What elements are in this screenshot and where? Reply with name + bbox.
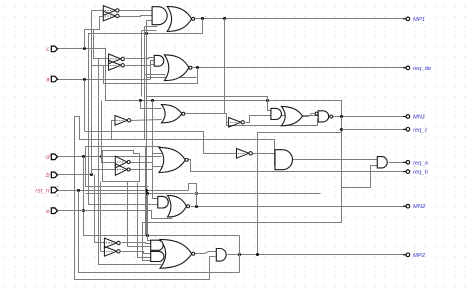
inverter U6 xyxy=(237,149,253,159)
output port req_b xyxy=(403,170,429,176)
wire h77 xyxy=(147,77,197,79)
junction MP1 a xyxy=(201,17,204,20)
rst_n annotations xyxy=(56,185,59,198)
junction d fb boxtop xyxy=(146,234,149,237)
svg-text:·2: ·2 xyxy=(56,194,59,198)
wire MP1 fb to and1 input xyxy=(147,21,153,34)
wire v93 xyxy=(93,30,95,59)
wire d down feedback xyxy=(84,157,240,236)
junction d1 xyxy=(82,155,85,158)
wire and4 bottom input xyxy=(342,166,378,188)
junction c xyxy=(83,47,86,50)
wire a down and run to inverter U6 xyxy=(84,80,86,132)
inverter U1a xyxy=(103,6,119,16)
junction req_c xyxy=(340,128,343,131)
input port e xyxy=(46,208,58,215)
inverter U7a xyxy=(104,238,120,248)
svg-text:·1: ·1 xyxy=(56,185,59,189)
svg-text:req_a: req_a xyxy=(413,160,429,166)
wire c up run xyxy=(85,17,104,49)
output port MN1 xyxy=(403,115,425,121)
wire nor6 wavy out xyxy=(195,252,217,254)
wire v85 c2 xyxy=(85,147,87,187)
wire b to inv U5b xyxy=(92,170,116,175)
wire inv U2b out xyxy=(126,65,155,66)
junction MN2 fb v147 xyxy=(146,192,149,195)
wire inv U2a out xyxy=(126,58,155,59)
svg-text:req_b: req_b xyxy=(413,170,429,176)
svg-text:req_de: req_de xyxy=(413,66,432,72)
wire v141 xyxy=(141,31,143,97)
and gate A1 xyxy=(152,7,167,25)
wire MN2 v196 xyxy=(196,194,198,207)
input port b xyxy=(46,172,58,179)
or gate O1 xyxy=(281,106,302,125)
wire MN1 box right edge xyxy=(143,133,342,261)
wire MP2 out xyxy=(228,254,407,256)
junction a xyxy=(83,78,86,81)
wire nand low input xyxy=(227,120,320,126)
wire MN1 to req_c xyxy=(258,117,342,255)
junction d2 xyxy=(100,155,103,158)
nor gate N4 xyxy=(159,147,188,172)
wire v224 lower xyxy=(224,97,226,114)
output port req_a xyxy=(403,160,429,166)
junction b xyxy=(90,173,93,176)
svg-text:rst_n: rst_n xyxy=(35,187,50,194)
wire v100 down xyxy=(100,182,102,252)
wire and4 out xyxy=(389,162,407,164)
wire req_de out xyxy=(193,67,407,69)
junction MP1 fb branch xyxy=(145,32,148,35)
wire h146 stub xyxy=(86,146,161,148)
output port MP2 xyxy=(403,253,426,259)
junction MN1 xyxy=(340,115,343,118)
junction MP1 b xyxy=(223,17,226,20)
wire v91 xyxy=(91,11,93,175)
svg-text:b: b xyxy=(46,172,50,179)
inverter U4 xyxy=(229,118,245,128)
wire v147 stub xyxy=(148,236,151,241)
and gate A6b xyxy=(151,251,164,261)
inverter U3 xyxy=(115,116,131,126)
and gate A0 xyxy=(271,108,282,119)
junction rst_n xyxy=(77,189,80,192)
output port MP1 xyxy=(403,17,425,23)
svg-text:MN1: MN1 xyxy=(413,115,425,121)
module box MP2 cluster right edge xyxy=(239,236,241,273)
and gate A3 xyxy=(275,150,292,170)
wire MN2 out xyxy=(191,206,407,208)
wire rst_n net xyxy=(58,190,189,192)
wire inv U2a input xyxy=(94,58,109,60)
wire MP1 feedback xyxy=(89,19,203,205)
wire inv U3 out to nor3 xyxy=(131,120,162,121)
wire inv U1b out xyxy=(120,16,153,17)
svg-text:d: d xyxy=(46,154,50,161)
wire feedback v75 xyxy=(75,117,216,280)
wire inv U1a out xyxy=(120,10,153,12)
wire rst_n down around xyxy=(79,191,240,273)
svg-text:MP2: MP2 xyxy=(413,253,426,259)
junction MN2 a xyxy=(195,192,198,195)
wire h186 stub xyxy=(86,186,149,188)
and gate A2 xyxy=(154,55,164,66)
wire inv U5a out xyxy=(131,154,164,163)
inverter U7b xyxy=(104,247,120,257)
wire v146 long xyxy=(146,78,148,236)
wire tap to and5 input xyxy=(153,101,158,199)
wire c tap to nor3 top input xyxy=(141,101,162,109)
wire b net xyxy=(58,174,92,176)
junction MP2 a xyxy=(238,253,241,256)
wire tap to and0 top input xyxy=(268,101,271,111)
wire MP1 v224 xyxy=(224,19,226,97)
wire a net xyxy=(58,79,151,81)
wire inverter U3 input tap xyxy=(112,121,116,140)
wire d net xyxy=(58,156,162,158)
input port c xyxy=(46,46,57,53)
nor gate N5 xyxy=(168,195,190,217)
inverter U2b xyxy=(109,60,125,70)
junction rst_n v146 xyxy=(145,189,148,192)
wire MP1 out xyxy=(195,18,407,20)
inverter U5a xyxy=(115,156,130,168)
wire v145 xyxy=(145,147,147,236)
wire MN1 out xyxy=(333,116,407,118)
output port MN2 xyxy=(403,204,426,210)
wire a to and2 mid input xyxy=(151,61,155,80)
wire inv U6 out xyxy=(253,153,276,155)
nor gate N1 xyxy=(167,6,194,31)
wire v137 xyxy=(138,183,151,258)
wire inv U7a out xyxy=(122,243,151,244)
wire nor1 extra in 2 xyxy=(142,30,157,32)
nor gate N6 xyxy=(160,239,195,268)
wire feedback h116 to v79 xyxy=(75,117,276,166)
junction c run and5 tap xyxy=(151,99,154,102)
wire b down to inv U7a xyxy=(95,175,105,243)
wire d to inv U5a xyxy=(102,101,116,163)
wire v144 nor2 stub xyxy=(145,74,166,76)
wire a run mid xyxy=(85,132,237,154)
wire c net main run xyxy=(58,49,342,117)
nor gate N3 xyxy=(162,105,185,123)
wire req_de feedback down xyxy=(104,66,198,84)
wire or1 out xyxy=(303,114,316,117)
wire v147 down xyxy=(147,194,149,236)
wire e net xyxy=(58,211,173,219)
wire MN2 fb hook xyxy=(189,184,197,194)
module box d/b inverters xyxy=(103,151,140,182)
output port req_de xyxy=(403,66,432,72)
and gate A7 xyxy=(216,249,226,262)
inverter U1b xyxy=(103,11,119,21)
nor gate N2 xyxy=(164,55,192,81)
wire req_b out xyxy=(187,160,407,172)
wire inv U5b out xyxy=(131,167,164,170)
inverter U2a xyxy=(109,54,125,64)
wire inv U7b input xyxy=(101,251,105,253)
svg-text:MN2: MN2 xyxy=(413,204,426,210)
wire inv U4 out xyxy=(246,116,319,123)
wire v127 xyxy=(128,182,151,247)
svg-text:req_c: req_c xyxy=(413,127,428,133)
wire inv U1a input xyxy=(92,10,104,12)
output port req_c xyxy=(403,127,428,133)
and gate A5 xyxy=(158,196,169,208)
wire v144 xyxy=(144,27,146,140)
and gate A6a xyxy=(151,240,163,250)
wire nor1 extra in 1 xyxy=(145,26,158,28)
junction MP2 b xyxy=(256,253,259,256)
svg-text:MP1: MP1 xyxy=(413,17,425,23)
wire v98 xyxy=(99,59,162,265)
input port a xyxy=(46,76,58,83)
junction req_de xyxy=(196,66,199,69)
wire inv U7b out xyxy=(122,252,151,254)
svg-text:a: a xyxy=(46,76,50,83)
wire v91 inv2b stub xyxy=(92,65,109,67)
wire MP1 fb branch down xyxy=(147,34,268,101)
junction MN2 b xyxy=(195,205,198,208)
svg-text:e: e xyxy=(46,208,50,215)
wire and3 out xyxy=(293,159,378,161)
junction c run nor3 tap xyxy=(139,99,142,102)
wire req_c out xyxy=(342,129,407,131)
wire MN2 fb long xyxy=(86,193,321,195)
input port d xyxy=(46,154,58,161)
inverter U5b xyxy=(115,164,130,176)
wire nor3 out to inv U4 xyxy=(185,114,229,123)
and gate A4 xyxy=(377,157,387,168)
junction e on v83 xyxy=(82,209,85,212)
input port rst_n xyxy=(35,187,57,194)
nand gate G1 xyxy=(315,111,333,122)
junction c run and0 tap xyxy=(266,99,269,102)
